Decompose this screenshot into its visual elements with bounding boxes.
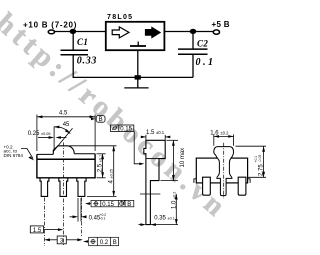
lead 3 front <box>77 178 86 197</box>
svg-text:B: B <box>127 202 131 208</box>
side body outline <box>144 140 165 224</box>
rear lead 1 <box>203 177 211 195</box>
right ledge <box>74 153 95 155</box>
dimension 2.75 <box>236 146 267 177</box>
rear lead 3 <box>238 177 246 195</box>
input terminal <box>48 30 54 34</box>
left ledge <box>37 153 53 155</box>
datum B flag <box>91 116 105 123</box>
svg-text:C2: C2 <box>197 38 208 48</box>
svg-text:DIN 6784: DIN 6784 <box>4 153 24 158</box>
svg-text:10 max: 10 max <box>180 148 186 168</box>
dimension 4.5 <box>37 115 95 152</box>
side step line <box>146 158 159 160</box>
boxed dimension 1.5 <box>30 226 63 233</box>
common pin symbol inside U1 <box>130 42 146 47</box>
dimension 0.45 lead width <box>70 198 87 222</box>
svg-text:+5 В: +5 В <box>212 20 230 29</box>
dimension 1.5 thickness <box>141 135 171 140</box>
wire junction down to C1 <box>72 32 74 51</box>
dimension 1.0 lead <box>175 194 178 225</box>
regulator U1 box <box>106 22 165 50</box>
svg-text:1.5: 1.5 <box>33 228 42 234</box>
boxed dimension 3 <box>44 236 82 244</box>
wire input to box <box>55 31 106 33</box>
output terminal <box>213 30 219 34</box>
body internal line <box>37 158 95 160</box>
dimension 10 max <box>161 140 179 180</box>
ground rail wire <box>73 76 193 78</box>
capacitor C2 <box>178 49 208 54</box>
svg-text:78L05: 78L05 <box>107 14 133 21</box>
svg-text:+10 В (7-20): +10 В (7-20) <box>23 20 77 29</box>
side lead step line <box>140 193 160 195</box>
wire junction down to C2 <box>192 32 194 49</box>
solid arrow inside U1 <box>145 27 160 37</box>
ground <box>124 87 148 89</box>
lead 1 front <box>40 178 49 197</box>
dimension 1.6 <box>214 134 234 145</box>
centerline lead2 tab <box>62 143 64 247</box>
node ground junction <box>135 75 141 79</box>
position frame 0.2 B <box>83 237 119 245</box>
leader DIN note <box>21 149 34 161</box>
dimension 4 overall height <box>69 146 117 197</box>
tab with chamfer <box>53 146 74 155</box>
svg-text:0.2: 0.2 <box>100 240 109 246</box>
wire C1 to ground rail <box>72 55 74 78</box>
wire junction to ground <box>137 79 139 88</box>
wire C2 to ground rail <box>192 54 194 77</box>
wire U1 output <box>164 31 213 33</box>
svg-text:-0.05: -0.05 <box>258 155 262 163</box>
svg-text:0.1: 0.1 <box>196 57 216 68</box>
rear centerline <box>223 143 225 199</box>
svg-text:C1: C1 <box>77 37 88 47</box>
rear body corner step right <box>248 179 251 183</box>
svg-text:M: M <box>120 201 125 207</box>
flatness frame 0.15 <box>111 125 145 165</box>
angle dimension 45 <box>53 126 73 152</box>
rear body corner step left <box>194 179 196 183</box>
body outline front view <box>37 154 95 178</box>
svg-text:45: 45 <box>63 122 70 128</box>
rear tab neck <box>214 147 234 196</box>
svg-text:B: B <box>99 117 103 123</box>
hollow arrow inside U1 <box>112 27 129 38</box>
svg-text:0.15: 0.15 <box>120 127 132 133</box>
rear body <box>196 158 247 183</box>
node output junction <box>190 29 197 34</box>
svg-text:2.75: 2.75 <box>259 164 265 176</box>
svg-text:B: B <box>113 240 117 246</box>
note DIN 6784 <box>4 144 24 158</box>
svg-text:4.5: 4.5 <box>59 111 68 117</box>
capacitor C1 <box>61 50 89 55</box>
lead 2 front <box>59 178 68 197</box>
dimension 0.35 lead tip <box>139 223 179 226</box>
centerline lead3 <box>81 198 83 238</box>
dimension 2.5 body height <box>97 154 106 178</box>
svg-text:0.15: 0.15 <box>102 202 114 208</box>
node input junction <box>70 29 77 34</box>
svg-text:-0.1: -0.1 <box>100 217 106 221</box>
wire U1 common pin down <box>137 50 139 77</box>
svg-text:0.33: 0.33 <box>77 55 97 66</box>
centerline lead1 <box>43 198 45 247</box>
position frame 0.15 M B <box>85 200 134 206</box>
